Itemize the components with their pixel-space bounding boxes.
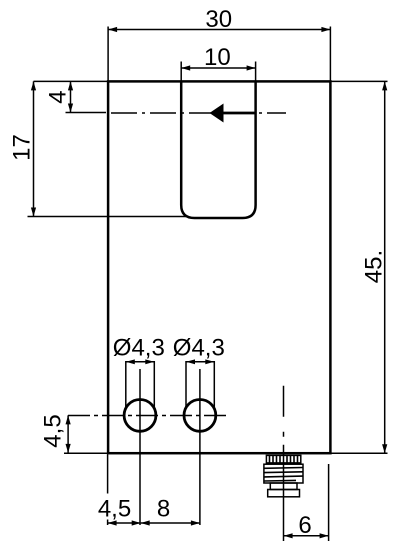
hole 1 dim: left extension line (125, 361, 127, 407)
hole 2 dim: dimension line (186, 361, 214, 363)
connector neck (270, 483, 297, 490)
dimension 10: extension line left (180, 62, 182, 81)
dimension 30: dimension line (108, 29, 330, 31)
dimension 45: dimension line (vertical, right side) (384, 81, 386, 453)
optical axis centerline (dash-dot through slot) (111, 112, 286, 114)
svg-text:4: 4 (45, 90, 72, 103)
dimension 30: right arrow (321, 27, 330, 32)
bottom dim 4,5: left arrow (108, 520, 117, 525)
bottom edge extension line left (64, 452, 107, 454)
connector thread lines (264, 468, 303, 482)
dimension 17: dimension line (vertical) (33, 81, 35, 216)
connector threaded body (264, 464, 303, 483)
dimension 4: bottom arrow (68, 104, 73, 113)
dimension 4: bottom extension line (66, 112, 107, 114)
dimension 10: right arrow (247, 65, 256, 70)
bottom dims: left extension line (part left edge extended down) (107, 455, 109, 494)
dimension 10: left arrow (181, 65, 190, 70)
bottom dim 4,5: right arrow (132, 520, 141, 525)
hole 2 dim: left extension line (185, 361, 187, 407)
dimension 6: left arrow (284, 533, 293, 538)
dimension 4,5 (left bottom): bottom arrow (66, 444, 71, 453)
connector end nut (268, 490, 300, 497)
hole 1 dim: right arrow (145, 359, 154, 364)
bottom dim 8: right arrow (191, 520, 200, 525)
dimension 4: top arrow (68, 81, 73, 90)
hole 2 vertical centerline (199, 369, 201, 525)
dimension 30: left arrow (108, 27, 117, 32)
hole 1 circle (124, 400, 156, 432)
dimension 6: right arrow (320, 533, 329, 538)
part outline: fork slot with rounded bottom (181, 81, 255, 219)
svg-text:6: 6 (298, 512, 311, 539)
dimension 45: bottom arrow (382, 444, 387, 453)
dimension 17: top arrow (31, 81, 36, 90)
bottom dim 8: left arrow (141, 520, 150, 525)
dimension 10: extension line right (255, 62, 257, 81)
svg-text:4,5: 4,5 (98, 496, 131, 523)
connector knurled collar (266, 455, 300, 463)
svg-text:10: 10 (204, 44, 231, 71)
dimension 30: extension line left (part left edge extended up) (107, 27, 109, 81)
hole 1 dim: dimension line (126, 361, 155, 363)
dimension 30: extension line right (part right edge extended up) (329, 27, 331, 81)
dimension 4,5 (left bottom): top arrow (66, 415, 71, 424)
connector centerline (dash-dot vertical) (283, 386, 285, 455)
optical axis arrow (solid, pointing left) (210, 104, 224, 123)
svg-text:4,5: 4,5 (40, 414, 67, 447)
dimension 17: bottom arrow (31, 208, 36, 217)
top edge extension line right (for dim 45) (332, 80, 388, 82)
bottom edge extension line right (for dim 45) (332, 452, 388, 454)
hole 2 dim: right arrow (205, 359, 214, 364)
hole 2 circle (184, 400, 216, 432)
hole 2 dim: left arrow (186, 359, 195, 364)
connector collar knurl lines (270, 455, 298, 463)
hole 2 dim: right extension line (213, 361, 215, 407)
part outline: outer body rectangle (108, 81, 330, 453)
hole 1 dim: left arrow (126, 359, 135, 364)
optical axis arrow shaft (221, 112, 256, 115)
bottom dims: dimension line 4,5 (108, 522, 141, 524)
dimension 4,5 (left bottom): dimension line (67, 415, 69, 453)
top edge extension line left (for dims 4 and 17) (34, 80, 108, 82)
svg-text:Ø4,3: Ø4,3 (113, 335, 165, 362)
dimension 6: dimension line (284, 535, 329, 537)
bottom dims: dimension line 8 (141, 522, 200, 524)
svg-text:17: 17 (9, 134, 36, 161)
dimension 17: bottom extension line (at slot bottom level) (28, 216, 189, 218)
hole 1 vertical centerline (139, 369, 141, 525)
dimension 4: dimension line (vertical) (70, 81, 72, 112)
svg-text:45.: 45. (361, 250, 388, 283)
dimension 10: dimension line (181, 67, 255, 69)
svg-text:Ø4,3: Ø4,3 (173, 335, 225, 362)
svg-text:30: 30 (205, 6, 232, 33)
dimension 6: right extension line (328, 464, 330, 541)
holes horizontal centerline (dash-dot) (68, 415, 226, 417)
hole 1 dim: right extension line (153, 361, 155, 407)
svg-text:8: 8 (157, 496, 170, 523)
dimension 45: top arrow (382, 81, 387, 90)
